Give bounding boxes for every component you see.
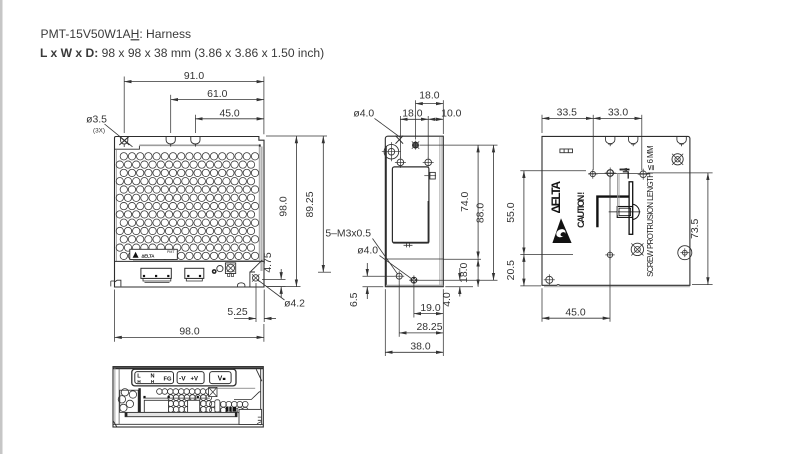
svg-text:19.0: 19.0 [420,303,440,314]
dimension 74.0 [477,145,479,259]
dimension 33.0 [593,117,642,119]
small stud on cutout bottom [404,244,413,246]
svg-text:ΔELTA: ΔELTA [549,181,563,214]
terminal label plate [132,369,236,386]
label o4.2 with leader [257,280,284,300]
svg-text:45.0: 45.0 [219,109,239,120]
svg-text:ø4.0: ø4.0 [353,109,374,120]
top view left inner edge line [115,150,117,261]
svg-text:38.0: 38.0 [410,342,430,353]
slot X mark on side top edge [396,136,404,144]
dimension 4.0 [459,268,461,280]
harness bracket bold drawing [597,197,629,228]
harness exit cutout [392,167,429,243]
bottom right block [239,409,262,424]
svg-text:4.75: 4.75 [263,252,274,272]
dimension 10.0 [428,118,443,120]
dark divider [138,388,140,412]
hole mid-bottom [607,252,612,257]
back view top U-notches [606,136,615,143]
bottom right hooks [257,417,261,424]
left-bottom tab [115,280,121,286]
dimension 45.0 [542,317,610,319]
svg-text:ø4.2: ø4.2 [284,298,305,309]
svg-text:89.25: 89.25 [305,191,316,217]
dimension 45.0 [195,118,264,120]
harness grey guide lines [616,173,618,215]
dimension 19.0 [414,313,443,315]
dimension 55.0 [523,171,525,255]
mounting slot (o3.5) at top-left with X mark [121,137,128,145]
M3 hole right column [425,159,432,166]
side view inner right flange line [439,137,441,285]
front view inner bottom edge [113,423,263,425]
svg-text:88.0: 88.0 [475,203,486,223]
front view top-right chamfer [256,369,262,381]
title PMT-15V50W1AH: Harness [40,27,713,427]
M3 hole left column [397,159,404,166]
svg-text:33.0: 33.0 [608,107,628,118]
svg-text:18.0: 18.0 [419,90,439,101]
svg-text:74.0: 74.0 [460,191,471,211]
front view inner right edge [260,368,262,425]
dimension 38.0 [385,351,443,353]
hole beside LED [217,266,223,272]
ext lines back view top [541,115,543,133]
capacitor outline [215,400,220,412]
svg-text:5–M3x0.5: 5–M3x0.5 [325,228,371,239]
screw boss bottom-middle [631,243,643,255]
back view bottom double edge [544,286,690,288]
front view inner left line [118,369,120,425]
back view M3 holes top row [590,171,595,176]
dimension 18.0 second row [400,118,428,120]
dimension 28.25 [399,332,443,334]
top view right flange grey band [260,147,262,272]
terminal base bar [125,412,237,416]
LED indicator [212,269,217,274]
svg-text:ø3.5: ø3.5 [86,115,107,126]
vent panel bottom separator line [115,260,265,262]
svg-text:CAUTION !: CAUTION ! [576,192,586,228]
svg-text:PMT: PMT [167,250,175,254]
dimension 91.0 [124,81,264,83]
svg-text:18.0: 18.0 [459,262,470,282]
dimension 20.5 [523,255,525,286]
screw hole o4.2 [253,275,259,281]
front view vent rows [157,389,249,413]
svg-text:5.25: 5.25 [227,307,247,318]
ext lines back view right [648,172,713,174]
top view vent panel top grey edge [139,144,260,146]
mounting boss o4.0 side [384,144,399,159]
harness top clip [620,169,630,171]
bottom tab bump [238,283,245,287]
right step detail [234,392,261,400]
input connector CN2 [185,268,204,278]
svg-text:20.5: 20.5 [506,260,517,280]
front view inner left edge [114,368,116,424]
ext lines side view bottom [384,289,386,356]
svg-text:33.5: 33.5 [557,107,577,118]
extension lines right of top view [266,135,327,137]
terminal rail with screw tabs [143,397,210,399]
dimension 18.0 right lower [477,259,479,287]
dimension 73.5 [707,173,709,285]
back view outline [542,136,690,285]
cutout thick lower-right edges [428,201,430,243]
bottom hole M3 [396,273,402,279]
front view outline [113,367,263,427]
extension lines top view top dims [123,77,125,134]
countersunk hole at 18.0 from right [413,142,419,148]
top view top-left recess step [115,146,139,149]
dimension 4.75 [262,278,286,280]
ext lines back view left [520,170,586,172]
svg-text:91.0: 91.0 [184,71,204,82]
page left edge grey strip [0,0,3,455]
top view U-notch at 61.0 reference [166,137,175,144]
svg-text:SCREW PROTRUSION LENGTH ≦ 6 MM: SCREW PROTRUSION LENGTH ≦ 6 MM [646,146,655,277]
plate lower edge line [210,387,255,389]
terminal block bodies [144,400,168,412]
dimension 89.25 vertical [318,271,331,273]
svg-text:ΔELTA: ΔELTA [141,254,155,259]
bottom hole o4.0 [411,277,417,283]
dimension 6.5 [363,275,395,277]
ext lines back view bottom [541,288,543,322]
potentiometer V-ADJ [225,263,235,274]
DIP switch block [560,149,573,153]
svg-text:98.0: 98.0 [179,327,199,338]
side view outline [385,136,443,287]
label group L N FG [135,372,174,384]
brand label plate (DELTA / PMT) [130,249,178,259]
dimension 98.0 bottom [114,290,116,342]
label group -V +V [177,372,204,384]
dimension 61.0 [171,99,264,101]
svg-text:V: V [218,376,223,383]
svg-text:FG: FG [163,377,172,383]
svg-text:55.0: 55.0 [506,202,517,222]
svg-text:61.0: 61.0 [207,89,227,100]
front view thick top edge [113,367,263,369]
screw boss bottom-right [678,246,692,260]
side view bottom grey edge [386,284,443,286]
svg-text:ø4.0: ø4.0 [357,245,378,256]
delta triangle logo on label [133,252,139,258]
front bottom-left chamfer [113,421,117,427]
hole bottom-left [546,276,553,283]
svg-text:+V: +V [191,376,199,382]
side pin detail [430,172,435,179]
svg-text:PMT-15V50W1AH: Harness: PMT-15V50W1AH: Harness [41,27,192,41]
svg-text:(3X): (3X) [93,128,105,135]
svg-text:10.0: 10.0 [441,109,461,120]
dimension 98.0 vertical [295,136,297,287]
vent hole grid [116,153,259,260]
crossed vent square [209,387,217,396]
label group V adj [210,372,232,384]
screw boss top-right [672,154,683,165]
svg-text:-V: -V [179,375,186,382]
side view thick left edge [385,146,387,286]
hole row line [589,173,650,175]
dimension 5.25 [255,283,257,322]
interior plate line [386,258,444,260]
top view U-notch at 45.0 reference [191,137,200,145]
svg-text:18.0: 18.0 [402,109,422,120]
striped component [226,407,236,412]
dimension 88.0 [493,145,495,280]
output connector CN1 [141,268,171,278]
front view left vent circles frame [120,390,138,412]
bottom-right corner notch [250,272,255,287]
top view outline [115,137,265,288]
ext lines side view top [415,100,417,139]
svg-text:6.5: 6.5 [349,292,360,307]
svg-text:98.0: 98.0 [278,196,289,216]
svg-text:73.5: 73.5 [690,218,701,238]
dimension 18.0 top row [416,103,444,105]
dimension 33.5 [542,117,593,119]
ext lines side view right [420,144,498,146]
svg-text:45.0: 45.0 [565,307,585,318]
svg-text:L x W x D: 98 x 98 x 38 mm (3.: L x W x D: 98 x 98 x 38 mm (3.86 x 3.86 … [40,46,324,60]
svg-text:28.25: 28.25 [416,322,442,333]
